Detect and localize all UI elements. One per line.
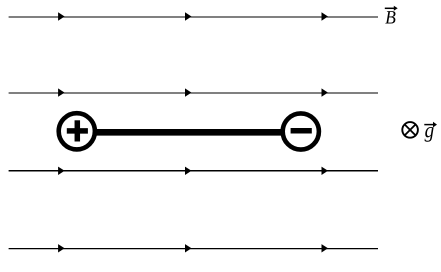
field line 4: [9, 248, 378, 250]
arrowhead on line 1 (middle): [185, 12, 192, 20]
field line 3: [9, 170, 378, 172]
plus sign: [67, 128, 88, 134]
g vector arrow: [424, 124, 434, 126]
positive charge circle: [59, 113, 95, 149]
arrowhead on line 1 (right): [322, 12, 329, 20]
B vector label: [385, 11, 395, 23]
arrowhead on line 2 (middle): [185, 88, 192, 96]
B vector arrow: [385, 7, 395, 9]
arrowhead on line 4 (right): [322, 244, 329, 252]
rod connecting charges: [77, 129, 301, 136]
field line 2: [9, 92, 378, 94]
g vector label: [425, 127, 434, 142]
arrowhead on line 4 (middle): [185, 244, 192, 252]
minus sign: [291, 128, 312, 134]
arrowhead on line 4 (left): [58, 244, 65, 252]
field line 1: [9, 16, 378, 18]
arrowhead on line 2 (left): [58, 88, 65, 96]
arrowhead on line 3 (right): [322, 167, 329, 175]
arrowhead on line 1 (left): [58, 12, 65, 20]
arrowhead on line 3 (left): [58, 167, 65, 175]
arrowhead on line 2 (right): [322, 88, 329, 96]
g into-page symbol (circle with X): [402, 122, 418, 138]
negative charge circle: [283, 113, 319, 149]
arrowhead on line 3 (middle): [185, 167, 192, 175]
